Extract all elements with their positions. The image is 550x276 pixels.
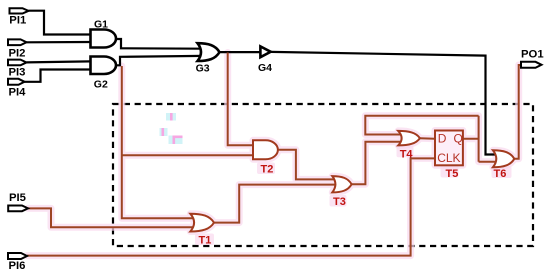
svg-text:PI5: PI5 xyxy=(9,192,26,204)
svg-text:CLK: CLK xyxy=(437,151,460,165)
svg-text:PI6: PI6 xyxy=(9,260,26,272)
svg-text:PI3: PI3 xyxy=(9,66,26,78)
svg-text:Q: Q xyxy=(454,131,463,145)
svg-text:G2: G2 xyxy=(94,78,108,90)
svg-text:D: D xyxy=(438,131,447,145)
svg-text:G1: G1 xyxy=(94,18,108,30)
svg-text:T3: T3 xyxy=(333,196,346,208)
svg-text:G3: G3 xyxy=(196,63,210,75)
svg-text:T2: T2 xyxy=(261,164,274,176)
svg-text:T6: T6 xyxy=(494,168,507,180)
svg-text:T5: T5 xyxy=(446,168,459,180)
svg-text:G4: G4 xyxy=(258,62,272,74)
svg-text:PO1: PO1 xyxy=(521,49,544,61)
svg-text:PI1: PI1 xyxy=(9,15,26,27)
svg-text:PI2: PI2 xyxy=(9,47,26,59)
svg-text:T1: T1 xyxy=(199,234,212,246)
svg-text:T4: T4 xyxy=(400,149,414,161)
svg-text:PI4: PI4 xyxy=(9,86,27,98)
